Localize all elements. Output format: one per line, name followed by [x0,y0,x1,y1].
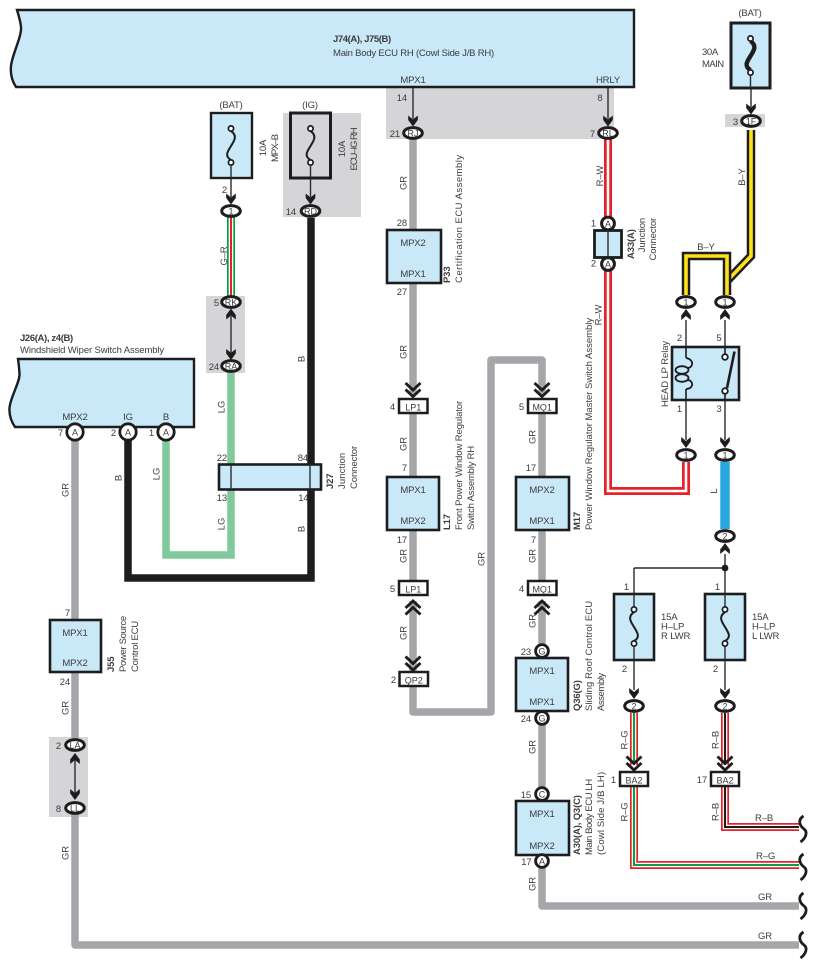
svg-text:R–G: R–G [756,851,775,862]
wire GR from LL to bottom right edge [75,814,799,945]
svg-text:MAIN: MAIN [702,59,724,70]
svg-text:4: 4 [390,402,395,413]
svg-text:G–R: G–R [219,246,230,265]
gray shading panel LA/LL connector [49,737,88,817]
svg-text:MPX2: MPX2 [62,658,87,669]
svg-text:R–B: R–B [711,803,722,821]
pin line 30A fuse bottom [750,88,752,107]
svg-text:LP1: LP1 [405,585,421,595]
arrow down into 2 oval right fuse [720,688,730,699]
wire R-W from A33 pin 2 to relay connector [608,270,686,491]
pin line MPX1 14 [412,88,414,119]
break symbol R-B [800,816,806,842]
line between RK and RA [230,316,232,353]
fuse 10A ECU-IG RH box [291,113,331,178]
svg-text:17: 17 [521,857,531,868]
svg-text:3: 3 [733,117,738,128]
svg-text:Power Window Regulator Master: Power Window Regulator Master Switch Ass… [584,318,595,530]
circle A33 pin 1 [602,217,615,230]
svg-text:R–B: R–B [711,731,722,749]
svg-text:J27: J27 [325,474,336,489]
line between LA and LL [74,760,76,793]
svg-text:GR: GR [528,549,539,563]
svg-text:R–G: R–G [620,802,631,821]
relay switch [722,347,734,400]
svg-text:10A: 10A [258,139,269,156]
svg-text:C: C [539,790,546,800]
ARROWS [70,104,756,801]
svg-text:1: 1 [683,298,688,308]
wire GR from M17 pin 7 to MQ1 pin 4 [538,530,546,581]
svg-text:G: G [538,714,545,724]
arrow down into relay out connector 1 left [681,437,691,448]
svg-text:GR: GR [61,846,72,860]
M17 box [516,477,569,530]
svg-text:8: 8 [597,93,602,104]
wiper switch box J26(A) z4(B) [9,359,194,427]
gray shading panel under main ECU pins [386,88,614,139]
circle wiper MPX2 pin A [67,424,83,440]
svg-text:30A: 30A [702,47,719,58]
LP1 pin 5 box [399,581,428,595]
svg-text:MQ1: MQ1 [532,403,552,413]
svg-text:GR: GR [399,345,410,359]
svg-text:J74(A), J75(B): J74(A), J75(B) [333,34,391,45]
circle A33 pin 2 [602,258,615,271]
svg-text:2: 2 [56,741,61,752]
wire R-W from RL to A33 pin 1 [604,139,612,217]
gray shading panel RK/RA connector [206,296,245,373]
A33 junction connector box [595,231,622,258]
wire GR from QP2 pin 2 around to MQ1 pin 5 [413,360,542,712]
svg-text:L LWR: L LWR [752,631,780,642]
break symbol GR upper [800,893,806,919]
CHEVRONS [406,383,733,770]
svg-text:MPX2: MPX2 [400,238,425,249]
svg-text:B: B [297,356,308,362]
svg-text:B: B [163,412,169,423]
pin line BAT fuse bottom [230,178,232,197]
svg-text:28: 28 [397,218,407,229]
oval RD [301,206,320,217]
svg-text:7: 7 [58,428,63,439]
A30 box [516,801,569,855]
line junction horizontal to left fuse [634,567,725,569]
line 15A R LWR fuse bottom [633,660,635,690]
svg-text:1: 1 [722,298,727,308]
wire R-G from 2 to BA2 pin 1 [630,713,638,765]
wire R-B from BA2 pin 17 to right edge [725,786,799,827]
svg-text:5: 5 [716,333,721,344]
chevron below LP1 pin 5 [406,601,421,615]
circle G pin 24 [536,712,549,725]
svg-text:Windshield Wiper Switch Assemb: Windshield Wiper Switch Assembly [20,345,164,356]
wire R-G from BA2 pin 1 to right edge [634,786,799,865]
wire GR from Q36 pin 24 to A30 pin 15 [538,725,546,787]
svg-text:Connector: Connector [349,446,360,489]
svg-text:GR: GR [528,430,539,444]
svg-text:MQ1: MQ1 [532,585,552,595]
svg-text:R–B: R–B [755,813,773,824]
oval 1 relay out left [677,450,696,461]
chevron above MQ1 pin 5 [535,383,550,397]
arrow down into relay out connector 1 right [720,437,730,448]
svg-text:RD: RD [304,207,317,217]
svg-text:RA: RA [225,362,238,372]
oval 1 below BAT fuse [222,206,241,217]
pin line HRLY 8 [607,88,609,119]
fuse 15A H-LP L LWR box [705,594,745,660]
Q36 box [516,658,568,711]
gray shading band 1F connector [725,114,765,127]
svg-text:LP1: LP1 [405,403,421,413]
MQ1 pin 5 box [528,399,557,413]
svg-text:24: 24 [60,677,70,688]
svg-text:R–W: R–W [595,165,606,186]
svg-text:GR: GR [399,437,410,451]
wire GR from L17 pin 17 to LP1 pin 5 [409,530,417,581]
svg-text:1: 1 [715,582,720,593]
svg-text:Certification ECU Assembly: Certification ECU Assembly [454,155,465,283]
line relay pin 1 down [685,400,687,440]
L17 box [387,477,439,530]
svg-text:A: A [163,428,169,438]
svg-text:GR: GR [399,176,410,190]
svg-text:HRLY: HRLY [596,75,621,86]
svg-text:Connector: Connector [648,218,659,260]
svg-text:GR: GR [528,740,539,754]
svg-text:MPX2: MPX2 [529,485,554,496]
svg-text:7: 7 [402,463,407,474]
svg-text:1: 1 [677,404,682,415]
oval RJ [404,128,423,139]
svg-text:Control ECU: Control ECU [130,621,141,672]
svg-text:MPX1: MPX1 [400,75,425,86]
gray shading panel IG fuse [283,113,361,217]
wire GR from J55 pin 24 to LA [71,672,79,738]
svg-text:MPX1: MPX1 [400,269,425,280]
oval 1 B-Y left [677,297,696,308]
svg-text:P33: P33 [442,267,453,283]
break symbol R-G [800,854,806,880]
svg-text:GR: GR [477,552,488,566]
svg-text:2: 2 [631,702,636,712]
svg-text:Junction: Junction [337,453,348,489]
svg-text:(Cowl Side J/B LH): (Cowl Side J/B LH) [596,772,607,855]
svg-text:RK: RK [225,298,238,308]
svg-text:8: 8 [56,804,61,815]
wire B-Y from 1F down and diagonal [727,130,751,281]
main ECU box J74(A) J75(B) [11,10,634,87]
arrow into connector 1 below BAT fuse [226,194,236,205]
svg-text:GR: GR [758,931,772,942]
svg-text:84: 84 [298,453,308,464]
svg-text:Junction: Junction [637,218,648,252]
arrow up into LA [70,753,80,764]
svg-text:A: A [539,857,545,867]
svg-text:Main Body ECU RH (Cowl Side J/: Main Body ECU RH (Cowl Side J/B RH) [333,48,494,59]
oval RK [222,297,241,308]
svg-text:MPX2: MPX2 [400,516,425,527]
svg-text:7: 7 [65,608,70,619]
svg-text:L17: L17 [442,514,453,530]
svg-text:Main Body ECU LH: Main Body ECU LH [584,779,595,855]
THIN PIN LINES [75,88,751,793]
P33 box [387,230,441,283]
break symbol GR lower [800,932,806,958]
svg-text:24: 24 [521,714,531,725]
circle wiper B pin A [158,424,174,440]
svg-text:A: A [125,428,131,438]
line relay pin 2 up [685,320,687,347]
svg-text:BA2: BA2 [716,776,733,786]
svg-text:2: 2 [222,185,227,196]
relay coil [676,347,693,400]
svg-text:R LWR: R LWR [661,631,690,642]
svg-text:RL: RL [602,129,614,139]
svg-text:1: 1 [624,582,629,593]
wire GR from LP1 pin 5 to QP2 pin 2 [409,601,417,672]
svg-text:A: A [72,428,78,438]
svg-text:14: 14 [298,493,308,504]
svg-text:13: 13 [217,493,227,504]
svg-text:A: A [605,260,611,270]
oval 2 left fuse [625,701,644,712]
line left branch down to 15A fuse 1 [633,568,635,594]
arrow up into B-Y connector 1 left [681,309,691,320]
wire GR from MQ1 pin 4 to Q36 pin 23 [538,601,546,644]
svg-text:R–W: R–W [594,304,605,325]
line from 2 oval to junction dot [724,554,726,568]
chevron below MQ1 pin 4 [535,601,550,615]
svg-text:ECU–IG RH: ECU–IG RH [349,127,360,170]
svg-text:2: 2 [391,675,396,686]
oval 1 B-Y right [716,297,735,308]
wire G-R from fuse connector 1 to RK [227,217,235,296]
arrow down into RA [226,349,236,360]
svg-text:GR: GR [758,892,772,903]
svg-text:7: 7 [531,535,536,546]
svg-text:A33(A): A33(A) [626,229,637,259]
arrow down into 2 oval left fuse [629,688,639,699]
svg-text:GR: GR [399,626,410,640]
wire R-B from 2 to BA2 pin 17 [721,713,729,765]
svg-text:(BAT): (BAT) [219,100,242,111]
svg-text:Q36(G): Q36(G) [572,680,583,711]
svg-text:21: 21 [390,129,400,140]
BREAK SYMBOLS [800,816,806,958]
svg-text:(BAT): (BAT) [738,8,761,19]
wire GR from LP1 pin 4 to L17 pin 7 [409,413,417,477]
svg-text:B–Y: B–Y [697,242,715,253]
svg-text:1: 1 [683,451,688,461]
oval 2 right fuse [716,701,735,712]
wire B from RD through J27 to wiper switch IG [128,218,311,578]
svg-text:17: 17 [697,775,707,786]
svg-text:2: 2 [722,702,727,712]
oval 2 L wire [716,531,735,542]
svg-text:Switch Assembly RH: Switch Assembly RH [466,446,477,530]
oval RL [599,128,618,139]
svg-text:MPX2: MPX2 [62,412,87,423]
svg-text:24: 24 [209,362,219,373]
fuse 15A H-LP R LWR box [614,594,654,660]
QP2 pin 2 box [400,672,429,686]
svg-text:MPX2: MPX2 [529,841,554,852]
svg-text:HEAD LP Relay: HEAD LP Relay [660,341,671,407]
BA2 pin 17 box [711,772,739,786]
circle wiper IG pin A [120,424,136,440]
svg-text:LA: LA [69,741,80,751]
svg-text:10A: 10A [337,140,348,157]
J55 box [50,620,101,672]
circle C pin 15 [536,788,549,801]
svg-text:2: 2 [713,664,718,675]
svg-text:1: 1 [228,207,233,217]
svg-text:Power Source: Power Source [118,616,129,672]
circle G pin 23 [536,645,549,658]
svg-text:1: 1 [611,775,616,786]
arrow up into 2 oval L wire [720,543,730,554]
svg-text:GR: GR [528,614,539,628]
svg-text:Sliding Roof Control ECU: Sliding Roof Control ECU [584,601,595,711]
svg-text:QP2: QP2 [405,676,423,686]
svg-text:27: 27 [397,287,407,298]
svg-text:2: 2 [722,532,727,542]
oval 1 relay out right [716,450,735,461]
pin line IG fuse bottom [310,178,312,197]
svg-text:J55: J55 [106,656,117,672]
line right branch down to 15A fuse 1 [724,568,726,594]
svg-text:17: 17 [526,463,536,474]
svg-text:Front Power Window Regulator: Front Power Window Regulator [454,401,465,530]
svg-text:GR: GR [399,549,410,563]
svg-text:R–G: R–G [620,730,631,749]
svg-text:RJ: RJ [408,129,419,139]
svg-text:2: 2 [677,333,682,344]
svg-text:A: A [605,219,611,229]
svg-text:MPX–B: MPX–B [270,134,281,162]
svg-text:BA2: BA2 [625,776,642,786]
junction dot [722,565,729,572]
svg-text:(IG): (IG) [302,100,318,111]
wire GR from A30 pin 17 to right edge [542,868,799,906]
svg-text:5: 5 [214,298,219,309]
svg-text:2: 2 [622,664,627,675]
wire LG from RA to J27 pin 22 [227,372,235,465]
LP1 pin 4 box [399,399,428,413]
svg-text:14: 14 [397,93,407,104]
svg-text:LG: LG [217,401,228,413]
svg-text:B–Y: B–Y [737,167,748,185]
arrow down into LL [70,789,80,800]
fuse 10A MPX-B box [211,113,252,178]
oval 1F [742,116,761,127]
arrow into RD [306,194,316,205]
svg-text:MPX1: MPX1 [529,809,554,820]
chevron above QP2 pin 2 [406,657,421,671]
oval LA [66,740,85,751]
svg-text:4: 4 [519,584,524,595]
arrow into RJ [408,116,418,127]
svg-text:GR: GR [61,483,72,497]
svg-text:2: 2 [591,259,596,270]
svg-text:MPX1: MPX1 [62,628,87,639]
line relay pin 5 up [724,320,726,347]
svg-text:GR: GR [61,701,72,715]
svg-text:7: 7 [590,129,595,140]
svg-text:17: 17 [397,535,407,546]
svg-text:LL: LL [70,804,80,814]
arrow into RL [603,116,613,127]
svg-text:MPX1: MPX1 [529,697,554,708]
svg-text:Assembly: Assembly [596,673,607,711]
BA2 pin 1 box [620,772,648,786]
svg-text:MPX1: MPX1 [400,485,425,496]
svg-text:1: 1 [722,451,727,461]
svg-text:LG: LG [217,518,228,530]
svg-text:A30(A), Q3(C): A30(A), Q3(C) [572,795,583,855]
svg-text:3: 3 [716,404,721,415]
svg-text:2: 2 [111,428,116,439]
svg-text:5: 5 [390,584,395,595]
svg-text:B: B [114,475,125,481]
svg-text:1F: 1F [746,117,757,127]
svg-text:MPX1: MPX1 [529,666,554,677]
oval LL [66,803,85,814]
svg-text:15: 15 [521,790,531,801]
HEAD LP relay box [672,347,739,400]
svg-text:MPX1: MPX1 [529,516,554,527]
svg-text:22: 22 [217,453,227,464]
svg-text:1: 1 [149,428,154,439]
svg-text:1: 1 [591,219,596,230]
svg-text:L: L [709,488,720,493]
svg-text:23: 23 [521,647,531,658]
wire GR from MQ1 pin 5 to M17 pin 17 [538,413,546,477]
wire GR from wiper switch MPX2 to J55 pin 7 [71,440,79,620]
arrow up into B-Y connector 1 right [720,309,730,320]
svg-text:GR: GR [528,877,539,891]
svg-text:G: G [538,647,545,657]
svg-text:5: 5 [519,402,524,413]
MQ1 pin 4 box [528,581,557,595]
svg-text:J26(A), z4(B): J26(A), z4(B) [20,333,73,344]
line relay pin 3 down [724,400,726,440]
arrow into 1F [746,104,756,115]
OVALS [66,116,761,868]
svg-text:14: 14 [286,207,296,218]
wire B-Y U-shape to relay top connectors [686,256,727,295]
line 15A L LWR fuse bottom [724,660,726,690]
svg-text:B: B [297,526,308,532]
circle A pin 17 [536,855,549,868]
chevron above BA2 pin 1 [627,757,642,771]
svg-text:M17: M17 [572,512,583,530]
svg-text:IG: IG [123,412,133,423]
chevron above LP1 pin 4 [406,383,421,397]
oval RA [222,361,241,372]
fuse 30A MAIN box [731,23,770,88]
wire GR from RJ to P33 pin 28 [409,139,417,231]
wire GR from P33 pin 27 to LP1 pin 4 [409,283,417,394]
wire L from relay pin 3 connector to 2 [720,462,730,529]
svg-text:LG: LG [152,468,163,480]
arrow up into RK [226,309,236,320]
chevron above BA2 pin 17 [718,757,733,771]
wire LG from J27 pin 13 to wiper switch B [166,440,231,555]
J27 junction connector box [219,465,321,490]
